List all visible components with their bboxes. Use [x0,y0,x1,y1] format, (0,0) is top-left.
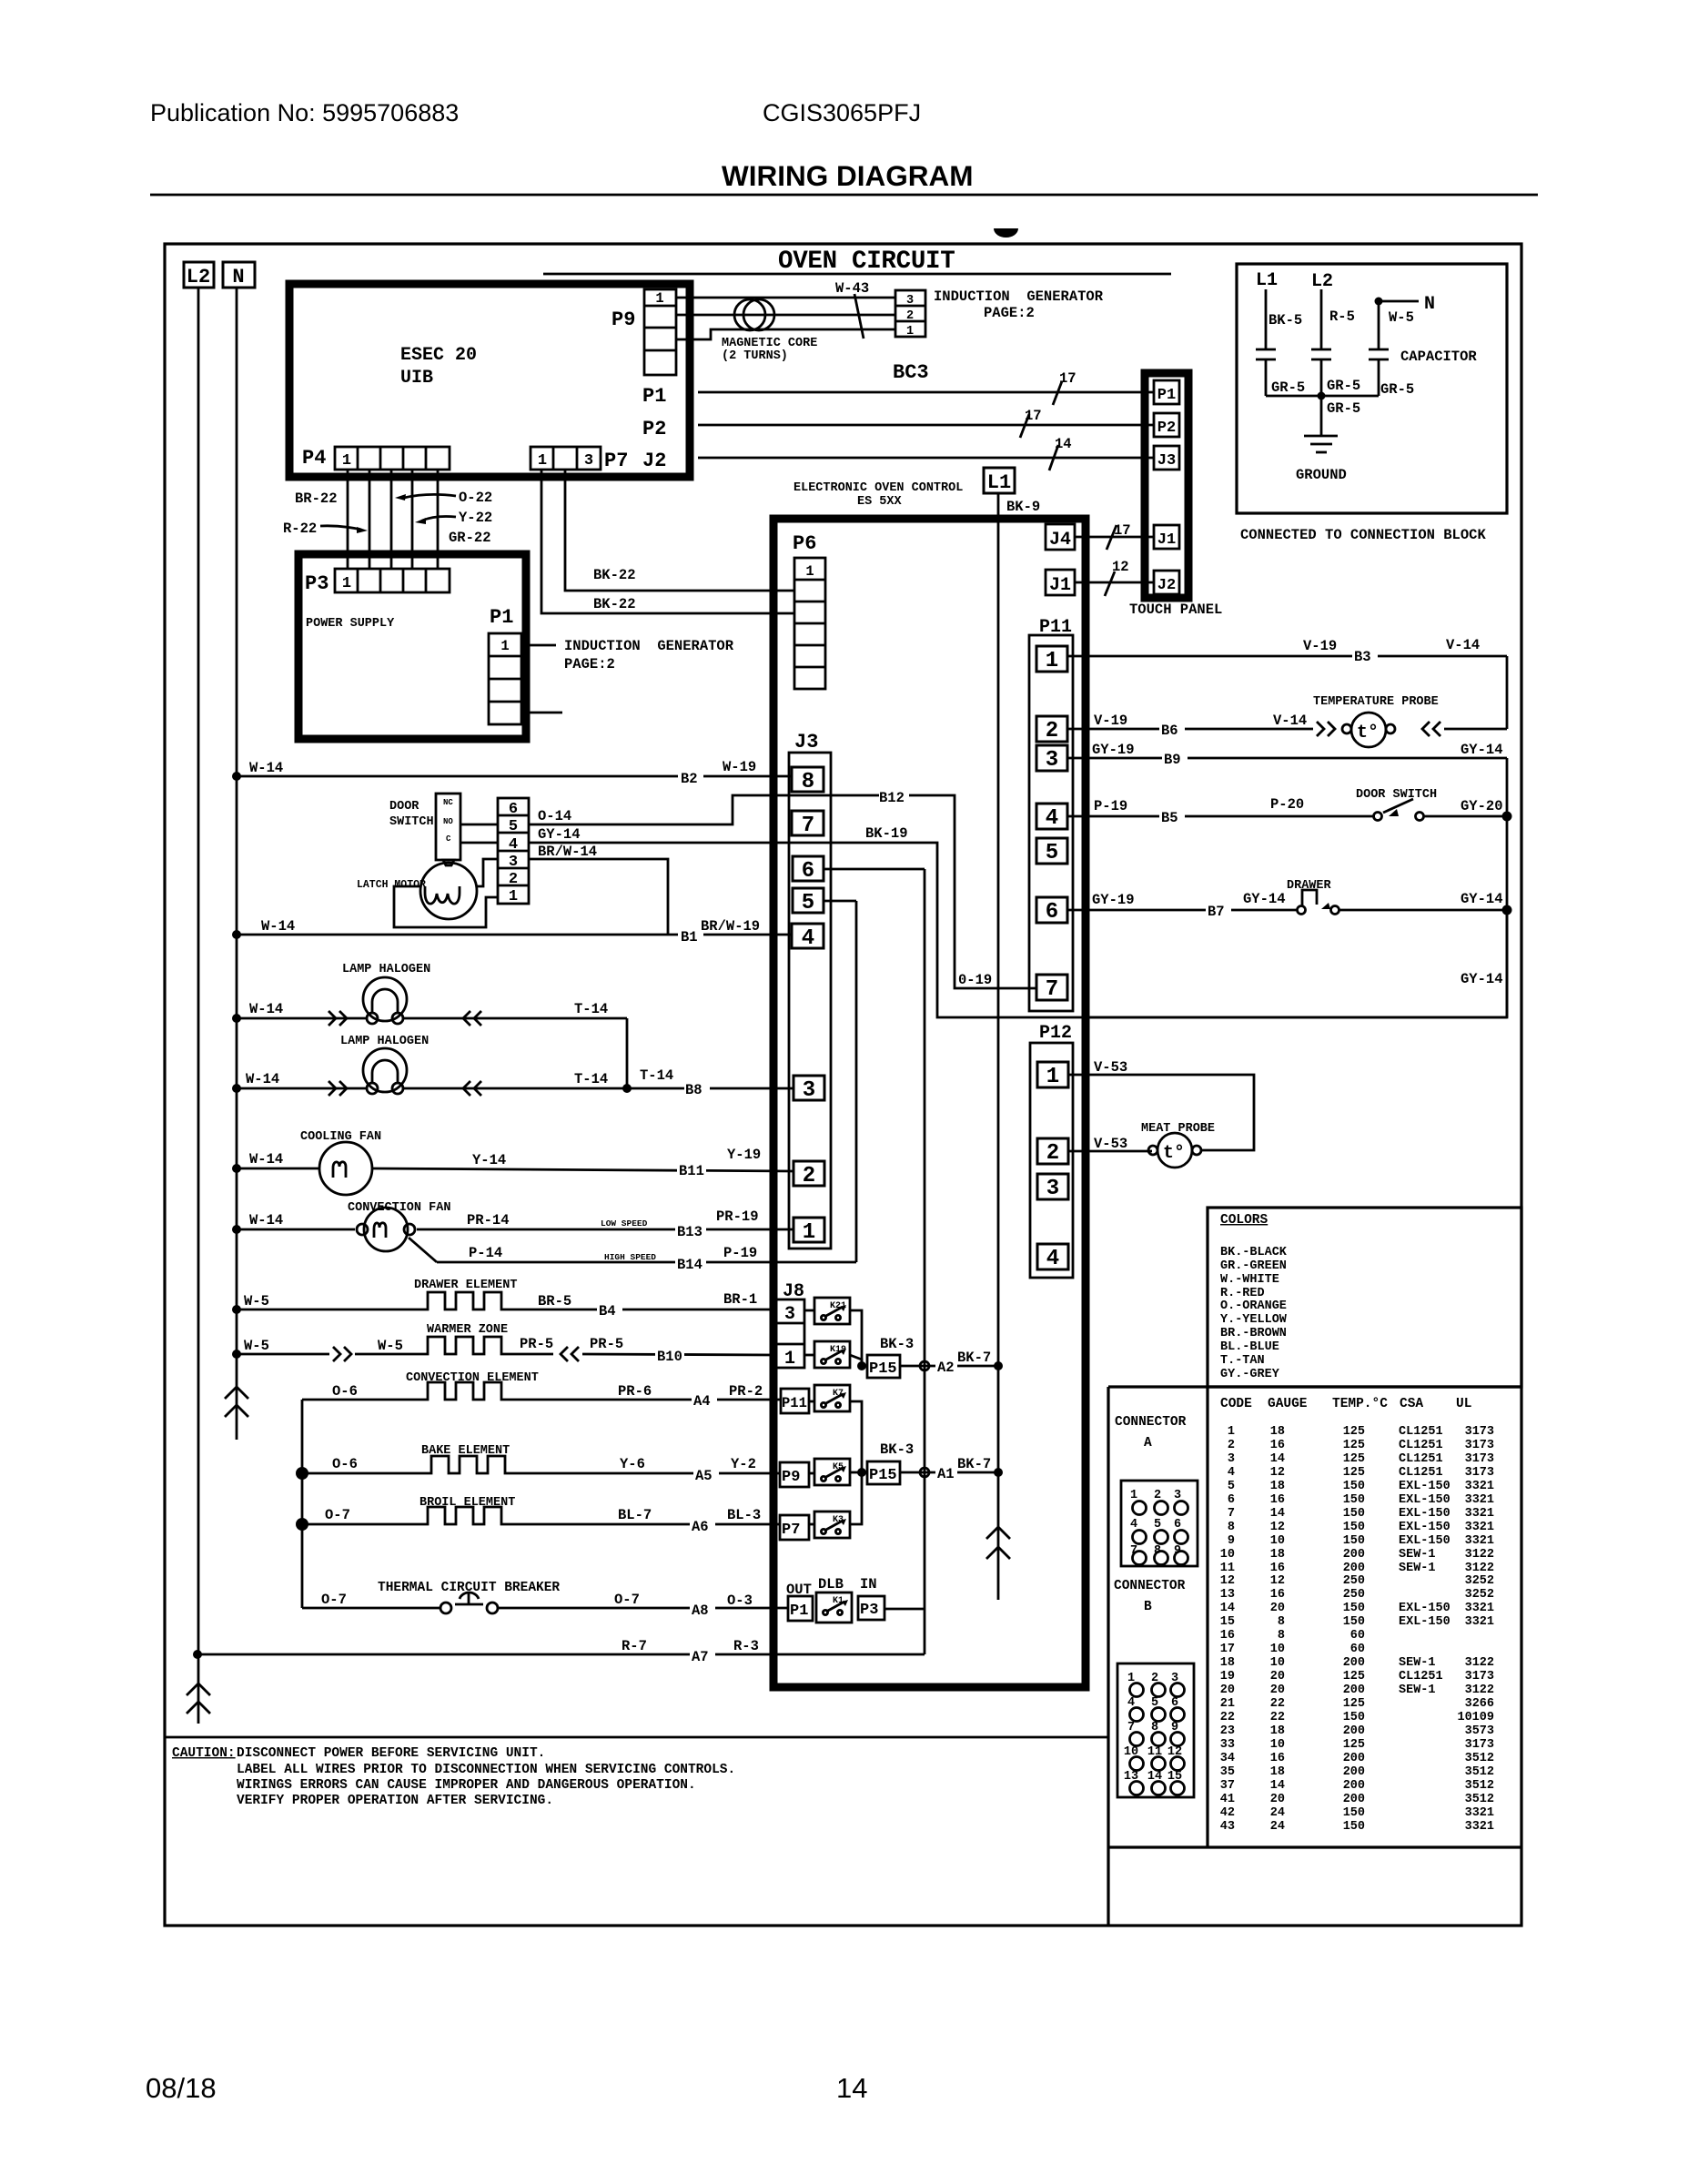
svg-text:B9: B9 [1164,752,1181,768]
svg-text:SEW-1: SEW-1 [1399,1656,1436,1670]
svg-text:3: 3 [803,1078,815,1103]
svg-text:T-14: T-14 [640,1067,673,1084]
svg-text:1: 1 [1046,1065,1059,1089]
svg-text:14: 14 [1270,1507,1285,1521]
svg-text:3173: 3173 [1465,1452,1494,1466]
svg-text:UIB: UIB [400,368,433,389]
svg-text:L1: L1 [987,471,1011,494]
svg-text:EXL-150: EXL-150 [1399,1507,1450,1521]
svg-text:O-22: O-22 [459,490,492,506]
svg-text:3321: 3321 [1465,1521,1494,1534]
svg-text:P2: P2 [1157,420,1176,437]
svg-text:L2: L2 [187,266,210,288]
svg-text:18: 18 [1270,1765,1285,1779]
svg-text:O-6: O-6 [332,1383,358,1400]
svg-text:150: 150 [1343,1820,1365,1834]
svg-text:CL1251: CL1251 [1399,1452,1443,1466]
svg-text:R-5: R-5 [1329,308,1355,325]
svg-text:EXL-150: EXL-150 [1399,1615,1450,1629]
svg-text:10: 10 [1270,1534,1285,1548]
svg-text:PR-5: PR-5 [520,1336,553,1352]
svg-text:J1: J1 [1049,575,1071,596]
svg-text:BR-22: BR-22 [295,490,338,507]
svg-text:10109: 10109 [1457,1711,1494,1724]
svg-text:GY-20: GY-20 [1461,798,1503,814]
svg-text:W-14: W-14 [249,760,283,776]
svg-text:12: 12 [1112,559,1129,575]
svg-text:T-14: T-14 [574,1071,608,1087]
svg-text:3173: 3173 [1465,1738,1494,1752]
svg-text:COLORS: COLORS [1220,1213,1269,1228]
svg-text:3321: 3321 [1465,1602,1494,1615]
svg-text:GR.-GREEN: GR.-GREEN [1220,1259,1287,1273]
svg-text:P-20: P-20 [1270,796,1304,813]
svg-text:V-14: V-14 [1273,713,1307,729]
svg-text:P2: P2 [642,418,666,440]
svg-text:T-14: T-14 [574,1001,608,1017]
svg-text:P1: P1 [642,385,666,408]
svg-text:R-7: R-7 [622,1638,647,1654]
svg-text:PR-2: PR-2 [729,1383,763,1400]
svg-text:PR-14: PR-14 [467,1212,510,1228]
svg-text:ES 5XX: ES 5XX [857,495,903,509]
svg-text:BK-3: BK-3 [880,1441,914,1458]
svg-text:14: 14 [1270,1779,1285,1793]
svg-text:43: 43 [1220,1820,1235,1834]
svg-text:125: 125 [1343,1738,1365,1752]
svg-text:WIRINGS ERRORS CAN CAUSE IMPRO: WIRINGS ERRORS CAN CAUSE IMPROPER AND DA… [237,1778,696,1793]
svg-text:GR-5: GR-5 [1327,378,1360,394]
svg-text:1: 1 [500,638,509,654]
svg-text:1: 1 [509,888,518,905]
svg-text:LATCH MOTOR: LATCH MOTOR [357,879,426,891]
svg-text:150: 150 [1343,1711,1365,1724]
svg-text:(2 TURNS): (2 TURNS) [722,349,788,363]
svg-text:18: 18 [1220,1656,1235,1670]
svg-text:14: 14 [1055,436,1072,452]
svg-text:6: 6 [802,859,814,884]
svg-text:P12: P12 [1039,1023,1072,1044]
svg-text:LAMP HALOGEN: LAMP HALOGEN [342,963,430,976]
svg-text:18: 18 [1270,1425,1285,1439]
svg-text:150: 150 [1343,1615,1365,1629]
svg-text:12: 12 [1220,1574,1235,1588]
svg-text:B10: B10 [657,1349,682,1365]
svg-text:W-14: W-14 [249,1212,283,1228]
svg-text:20: 20 [1270,1602,1285,1615]
svg-text:2: 2 [1046,1141,1059,1166]
svg-text:200: 200 [1343,1548,1365,1562]
svg-text:L2: L2 [1311,271,1333,292]
svg-text:4: 4 [1046,806,1058,831]
svg-text:P7: P7 [604,450,628,472]
svg-text:L1: L1 [1256,270,1278,291]
svg-text:A8: A8 [692,1603,709,1619]
svg-text:1: 1 [784,1349,795,1370]
svg-text:W-43: W-43 [835,280,869,297]
svg-text:CODE: CODE [1220,1397,1252,1411]
svg-text:200: 200 [1343,1793,1365,1806]
svg-text:DOOR: DOOR [389,800,419,814]
svg-text:P1: P1 [1157,387,1176,404]
svg-text:14: 14 [1270,1452,1285,1466]
svg-text:TEMPERATURE PROBE: TEMPERATURE PROBE [1313,695,1439,709]
svg-text:J2: J2 [642,450,666,472]
svg-text:3321: 3321 [1465,1507,1494,1521]
svg-text:18: 18 [1270,1480,1285,1493]
svg-text:t°: t° [1357,723,1379,743]
svg-text:Y-6: Y-6 [620,1456,645,1472]
svg-text:17: 17 [1220,1643,1235,1656]
svg-text:HIGH SPEED: HIGH SPEED [604,1252,656,1262]
svg-text:W-5: W-5 [1389,309,1414,326]
svg-text:150: 150 [1343,1806,1365,1820]
svg-text:A4: A4 [693,1393,711,1410]
svg-text:EXL-150: EXL-150 [1399,1493,1450,1507]
svg-text:3122: 3122 [1465,1562,1494,1575]
svg-text:C: C [446,834,451,844]
svg-text:WARMER ZONE: WARMER ZONE [427,1323,508,1337]
svg-text:200: 200 [1343,1562,1365,1575]
svg-text:O-7: O-7 [321,1592,347,1608]
svg-text:W-14: W-14 [249,1151,283,1168]
svg-text:TEMP.°C: TEMP.°C [1332,1397,1388,1411]
svg-text:3321: 3321 [1465,1480,1494,1493]
svg-text:250: 250 [1343,1574,1365,1588]
svg-text:60: 60 [1350,1643,1365,1656]
svg-text:PR-19: PR-19 [716,1208,759,1225]
svg-text:GY-19: GY-19 [1092,742,1135,758]
svg-text:125: 125 [1343,1425,1365,1439]
svg-text:V-19: V-19 [1303,638,1337,654]
svg-text:MAGNETIC CORE: MAGNETIC CORE [722,337,817,350]
svg-text:24: 24 [1270,1820,1285,1834]
svg-text:R-22: R-22 [283,521,317,537]
svg-text:3173: 3173 [1465,1439,1494,1452]
svg-text:7: 7 [1046,977,1058,1002]
svg-text:8: 8 [802,770,814,794]
svg-text:08/18: 08/18 [146,2072,217,2104]
svg-text:B13: B13 [677,1224,702,1240]
svg-text:22: 22 [1220,1711,1235,1724]
svg-text:BK-9: BK-9 [1006,499,1040,515]
svg-text:14: 14 [1220,1602,1235,1615]
svg-text:B6: B6 [1161,723,1178,739]
svg-text:TOUCH PANEL: TOUCH PANEL [1129,602,1222,618]
svg-text:8: 8 [1228,1521,1235,1534]
svg-text:3122: 3122 [1465,1683,1494,1697]
svg-text:3: 3 [906,294,914,308]
svg-text:EXL-150: EXL-150 [1399,1602,1450,1615]
svg-text:IN: IN [860,1576,877,1592]
svg-text:B7: B7 [1208,904,1225,920]
svg-text:P15: P15 [869,1467,897,1484]
svg-text:PAGE:2: PAGE:2 [984,305,1035,321]
svg-text:O-7: O-7 [325,1507,350,1523]
svg-text:200: 200 [1343,1752,1365,1765]
svg-text:A7: A7 [692,1649,709,1665]
svg-text:BL.-BLUE: BL.-BLUE [1220,1340,1279,1354]
svg-text:BR/W-19: BR/W-19 [701,918,760,935]
svg-text:22: 22 [1270,1711,1285,1724]
svg-text:3512: 3512 [1465,1793,1494,1806]
svg-text:t°: t° [1163,1143,1185,1164]
svg-text:BK-7: BK-7 [957,1456,991,1472]
svg-text:BR-1: BR-1 [723,1291,757,1308]
svg-text:SWITCH: SWITCH [389,815,434,829]
svg-text:200: 200 [1343,1683,1365,1697]
svg-text:W-5: W-5 [244,1293,269,1309]
svg-text:P9: P9 [612,308,635,331]
svg-text:Y.-YELLOW: Y.-YELLOW [1220,1313,1288,1327]
svg-text:UL: UL [1456,1397,1471,1411]
svg-text:BL-3: BL-3 [727,1507,761,1523]
svg-text:6: 6 [1228,1493,1235,1507]
svg-text:8: 8 [1278,1629,1285,1643]
svg-text:150: 150 [1343,1507,1365,1521]
svg-text:W.-WHITE: W.-WHITE [1220,1273,1279,1287]
svg-text:DISCONNECT POWER BEFORE SERVIC: DISCONNECT POWER BEFORE SERVICING UNIT. [237,1746,545,1761]
svg-text:150: 150 [1343,1493,1365,1507]
svg-text:O-14: O-14 [538,808,571,824]
svg-text:B3: B3 [1354,649,1371,665]
svg-text:3266: 3266 [1465,1697,1494,1711]
svg-text:0-19: 0-19 [958,972,992,988]
svg-text:3122: 3122 [1465,1656,1494,1670]
svg-text:PAGE:2: PAGE:2 [564,656,615,672]
svg-text:125: 125 [1343,1452,1365,1466]
svg-text:21: 21 [1220,1697,1235,1711]
svg-text:P-19: P-19 [1094,798,1127,814]
svg-text:15: 15 [1220,1615,1235,1629]
svg-text:GY-14: GY-14 [1461,742,1503,758]
svg-text:GAUGE: GAUGE [1268,1397,1308,1411]
svg-text:3321: 3321 [1465,1493,1494,1507]
svg-text:20: 20 [1270,1793,1285,1806]
svg-text:24: 24 [1270,1806,1285,1820]
svg-text:BK-7: BK-7 [957,1350,991,1366]
svg-text:13: 13 [1220,1588,1235,1602]
svg-text:POWER SUPPLY: POWER SUPPLY [306,617,395,631]
svg-text:A6: A6 [692,1519,709,1535]
svg-text:ELECTRONIC OVEN CONTROL: ELECTRONIC OVEN CONTROL [793,481,963,495]
svg-text:200: 200 [1343,1656,1365,1670]
svg-text:O-6: O-6 [332,1456,358,1472]
svg-text:PR-6: PR-6 [618,1383,652,1400]
svg-text:10: 10 [1220,1548,1235,1562]
svg-text:1: 1 [906,325,914,339]
svg-text:23: 23 [1220,1724,1235,1738]
svg-text:10: 10 [1270,1656,1285,1670]
svg-text:41: 41 [1220,1793,1235,1806]
svg-text:125: 125 [1343,1670,1365,1683]
svg-text:J4: J4 [1049,530,1071,551]
svg-text:12: 12 [1270,1521,1285,1534]
svg-text:3: 3 [1046,1177,1059,1201]
svg-text:1: 1 [538,452,547,470]
svg-text:WIRING DIAGRAM: WIRING DIAGRAM [722,159,973,192]
svg-text:17: 17 [1059,370,1076,387]
svg-text:12: 12 [1270,1574,1285,1588]
svg-text:CAUTION:: CAUTION: [172,1746,236,1761]
svg-text:P9: P9 [782,1469,800,1486]
svg-text:GY-14: GY-14 [1461,971,1503,987]
svg-text:3321: 3321 [1465,1806,1494,1820]
svg-text:18: 18 [1270,1548,1285,1562]
svg-text:5: 5 [802,891,814,915]
svg-text:A2: A2 [937,1360,955,1376]
svg-text:3173: 3173 [1465,1466,1494,1480]
svg-text:2: 2 [1228,1439,1235,1452]
svg-text:W-5: W-5 [244,1338,269,1354]
svg-text:20: 20 [1270,1683,1285,1697]
svg-text:16: 16 [1270,1493,1285,1507]
svg-text:150: 150 [1343,1521,1365,1534]
svg-text:1: 1 [803,1220,815,1245]
svg-text:BK-3: BK-3 [880,1336,914,1352]
svg-text:4: 4 [1046,1247,1059,1271]
svg-text:2: 2 [803,1164,815,1188]
svg-text:BK.-BLACK: BK.-BLACK [1220,1246,1288,1259]
svg-text:T.-TAN: T.-TAN [1220,1354,1265,1368]
svg-text:R-3: R-3 [733,1638,759,1654]
svg-text:3573: 3573 [1465,1724,1494,1738]
svg-text:GY-14: GY-14 [1243,891,1286,907]
svg-text:3122: 3122 [1465,1548,1494,1562]
svg-text:1: 1 [1228,1425,1235,1439]
svg-text:V-14: V-14 [1446,637,1480,653]
svg-text:BK-5: BK-5 [1269,312,1302,329]
svg-text:200: 200 [1343,1765,1365,1779]
svg-text:2: 2 [906,309,914,323]
svg-text:MEAT PROBE: MEAT PROBE [1141,1122,1215,1136]
svg-text:60: 60 [1350,1629,1365,1643]
svg-text:11: 11 [1220,1562,1235,1575]
svg-text:18: 18 [1270,1724,1285,1738]
svg-text:125: 125 [1343,1466,1365,1480]
svg-text:BR.-BROWN: BR.-BROWN [1220,1327,1287,1340]
svg-text:BK-19: BK-19 [865,825,908,842]
svg-text:GR-5: GR-5 [1327,400,1360,417]
svg-text:42: 42 [1220,1806,1235,1820]
svg-text:GR-5: GR-5 [1380,381,1414,398]
svg-text:W-14: W-14 [246,1071,279,1087]
svg-text:A: A [1144,1436,1152,1451]
svg-text:B11: B11 [679,1163,704,1179]
svg-text:150: 150 [1343,1602,1365,1615]
svg-text:CL1251: CL1251 [1399,1466,1443,1480]
svg-text:R.-RED: R.-RED [1220,1287,1265,1300]
svg-text:SEW-1: SEW-1 [1399,1548,1436,1562]
svg-text:O-3: O-3 [727,1592,753,1609]
svg-text:14: 14 [836,2072,867,2104]
svg-text:B1: B1 [681,929,698,945]
svg-text:B5: B5 [1161,810,1178,826]
svg-text:W-14: W-14 [261,918,295,935]
svg-text:P15: P15 [869,1360,897,1378]
svg-text:J3: J3 [1157,452,1176,470]
svg-text:3512: 3512 [1465,1765,1494,1779]
svg-text:3: 3 [1228,1452,1235,1466]
svg-text:33: 33 [1220,1738,1235,1752]
svg-text:8: 8 [1278,1615,1285,1629]
svg-text:J1: J1 [1157,531,1176,549]
svg-text:B14: B14 [677,1257,702,1273]
svg-text:22: 22 [1270,1697,1285,1711]
svg-text:CONNECTED TO CONNECTION BLOCK: CONNECTED TO CONNECTION BLOCK [1240,527,1486,543]
svg-text:P6: P6 [793,532,816,555]
svg-text:V-19: V-19 [1094,713,1127,729]
svg-text:INDUCTION GENERATOR: INDUCTION GENERATOR [564,638,734,654]
svg-text:P1: P1 [790,1603,808,1620]
svg-text:OVEN CIRCUIT: OVEN CIRCUIT [778,248,955,276]
svg-text:CGIS3065PFJ: CGIS3065PFJ [763,99,921,126]
svg-text:3321: 3321 [1465,1615,1494,1629]
svg-text:3173: 3173 [1465,1670,1494,1683]
svg-text:9: 9 [1228,1534,1235,1548]
svg-text:SEW-1: SEW-1 [1399,1683,1436,1697]
svg-text:P4: P4 [302,447,326,470]
svg-text:150: 150 [1343,1480,1365,1493]
svg-text:4: 4 [802,926,814,951]
svg-text:INDUCTION GENERATOR: INDUCTION GENERATOR [934,288,1104,305]
svg-text:B12: B12 [879,790,905,806]
svg-text:125: 125 [1343,1697,1365,1711]
svg-text:P3: P3 [860,1602,878,1619]
svg-text:5: 5 [1046,841,1058,865]
svg-text:GY-14: GY-14 [1461,891,1503,907]
svg-text:4: 4 [1228,1466,1235,1480]
svg-text:1: 1 [655,290,663,307]
svg-text:W-14: W-14 [249,1001,283,1017]
svg-text:BK-22: BK-22 [593,596,636,612]
svg-text:GR-5: GR-5 [1271,379,1305,396]
svg-text:Y-19: Y-19 [727,1147,761,1163]
svg-text:Y-22: Y-22 [459,510,492,526]
svg-text:P1: P1 [490,606,513,629]
svg-text:16: 16 [1270,1562,1285,1575]
svg-text:A1: A1 [937,1466,955,1482]
svg-text:5: 5 [509,818,518,835]
svg-text:5: 5 [1228,1480,1235,1493]
svg-text:1: 1 [342,452,351,470]
svg-text:EXL-150: EXL-150 [1399,1480,1450,1493]
svg-text:3173: 3173 [1465,1425,1494,1439]
svg-text:CL1251: CL1251 [1399,1439,1443,1452]
svg-text:SEW-1: SEW-1 [1399,1562,1436,1575]
svg-text:16: 16 [1220,1629,1235,1643]
svg-text:Y-14: Y-14 [472,1152,506,1168]
svg-text:BR-5: BR-5 [538,1293,571,1309]
svg-text:P3: P3 [305,572,329,595]
svg-text:O-7: O-7 [614,1592,640,1608]
svg-text:LAMP HALOGEN: LAMP HALOGEN [340,1035,429,1048]
svg-text:1: 1 [342,575,351,592]
svg-text:N: N [232,266,244,288]
svg-text:P-14: P-14 [469,1245,502,1261]
svg-text:B: B [1144,1600,1152,1614]
svg-text:3: 3 [584,452,593,470]
svg-text:EXL-150: EXL-150 [1399,1534,1450,1548]
svg-text:B4: B4 [599,1303,616,1319]
svg-text:BR/W-14: BR/W-14 [538,844,597,860]
svg-text:3252: 3252 [1465,1574,1494,1588]
svg-text:200: 200 [1343,1724,1365,1738]
svg-text:GROUND: GROUND [1296,467,1347,483]
svg-text:NO: NO [443,817,453,826]
svg-text:O.-ORANGE: O.-ORANGE [1220,1299,1287,1313]
svg-text:Publication No: 5995706883: Publication No: 5995706883 [150,99,459,126]
